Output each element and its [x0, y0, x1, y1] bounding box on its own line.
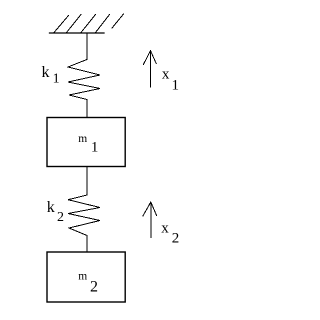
svg-text:k: k	[42, 64, 50, 81]
arrow x2 head	[143, 202, 157, 216]
svg-text:m: m	[78, 133, 87, 145]
svg-text:2: 2	[172, 231, 180, 247]
mass m2 box	[47, 252, 125, 302]
svg-text:2: 2	[90, 278, 98, 295]
support hatch 3	[81, 15, 96, 33]
svg-text:k: k	[47, 199, 55, 216]
svg-text:1: 1	[172, 78, 180, 94]
fixed support ceiling line	[50, 32, 105, 34]
svg-text:x: x	[161, 220, 169, 236]
arrow x2 shaft	[150, 202, 152, 237]
wire spring k2 to mass m2	[86, 236, 88, 253]
svg-text:1: 1	[91, 140, 99, 156]
spring k1	[68, 60, 100, 100]
support hatch 5	[112, 14, 124, 28]
mass m1 box	[47, 118, 125, 167]
spring k2	[68, 195, 100, 236]
arrow x1 shaft	[150, 51, 152, 87]
wire spring k1 to mass m1	[86, 100, 88, 118]
wire mass m1 to spring k2	[86, 167, 88, 196]
support hatch 2	[67, 15, 82, 33]
support hatch 1	[54, 16, 69, 33]
wire ceiling to spring k1	[86, 33, 88, 60]
svg-text:1: 1	[53, 72, 60, 87]
arrow x1 head	[143, 51, 156, 65]
support hatch 4	[96, 15, 110, 33]
svg-text:2: 2	[57, 210, 64, 225]
svg-text:x: x	[162, 67, 170, 83]
svg-text:m: m	[78, 271, 87, 283]
